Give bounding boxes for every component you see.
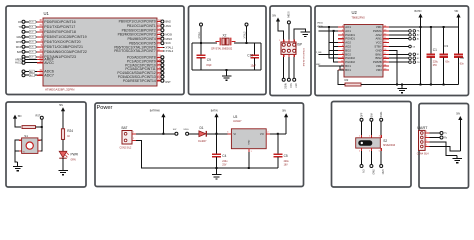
node GND terminal (S2 bottom) — [380, 148, 382, 151]
svg-text:GND: GND — [249, 139, 251, 144]
svg-text:VM1A: VM1A — [317, 21, 323, 24]
U2 pin row 5 — [338, 42, 344, 44]
svg-text:C2: C2 — [460, 56, 464, 60]
svg-text:MA2: MA2 — [17, 36, 23, 39]
ground (ISP top right) — [301, 32, 311, 36]
svg-text:4: 4 — [359, 151, 360, 153]
svg-text:25V: 25V — [433, 65, 438, 67]
svg-text:5: 5 — [369, 151, 370, 153]
ground (LED) — [62, 158, 64, 170]
wire SWG to D1 — [189, 133, 199, 135]
wire ground rail — [136, 140, 278, 168]
svg-text:220u: 220u — [284, 161, 290, 163]
svg-text:PC6/RESET/PCINT14: PC6/RESET/PCINT14 — [123, 79, 156, 83]
svg-text:PD1/TXD/PCINT17: PD1/TXD/PCINT17 — [44, 25, 75, 29]
connector ISP CON6 — [281, 42, 296, 54]
svg-text:1: 1 — [279, 40, 280, 42]
svg-text:VI: VI — [233, 132, 236, 136]
svg-text:RST: RST — [294, 83, 296, 88]
U2 pin row 7 — [338, 49, 344, 51]
ground (power) — [216, 168, 218, 174]
svg-text:5IN: 5IN — [272, 14, 276, 17]
svg-text:X2: X2 — [223, 33, 227, 37]
wire U2 left bus — [319, 27, 339, 31]
svg-text:CON4 SIL4: CON4 SIL4 — [417, 154, 429, 156]
svg-text:4: 4 — [426, 145, 427, 147]
node PA jumper — [389, 30, 409, 32]
ground (reset) — [17, 162, 19, 166]
node SCK terminal — [287, 78, 290, 81]
svg-text:BATIN: BATIN — [415, 10, 422, 13]
svg-text:25V: 25V — [222, 165, 227, 167]
U2 pin row 1 — [338, 26, 344, 28]
svg-text:BM2: BM2 — [166, 20, 172, 24]
connector CON4 SIL4 — [419, 130, 426, 150]
capacitor C9 — [200, 43, 202, 55]
svg-text:1: 1 — [359, 136, 360, 138]
U1 pin PD7 row — [22, 55, 25, 58]
svg-text:U1: U1 — [44, 11, 50, 16]
svg-text:PD6/AIN0/OC0A/PCINT22: PD6/AIN0/OC0A/PCINT22 — [44, 50, 87, 54]
svg-text:C10: C10 — [247, 53, 253, 57]
card U2 section frame — [315, 6, 469, 96]
svg-text:2: 2 — [426, 136, 427, 138]
svg-text:R24: R24 — [67, 129, 73, 133]
svg-text:ON: ON — [361, 169, 363, 173]
node STBY jumper — [389, 46, 409, 48]
U2 pin row 9 — [338, 57, 344, 59]
svg-text:1K: 1K — [67, 136, 70, 138]
wire UART 5V — [430, 135, 461, 151]
power flag 5IN (reset) — [13, 115, 17, 119]
ground U2 — [401, 85, 403, 89]
MCU U1 ATMEGA328P body — [43, 18, 157, 86]
U2 pin row 3 — [338, 34, 344, 36]
svg-text:GRN: GRN — [71, 160, 76, 162]
svg-text:PD4/T0/XCK/PCINT20: PD4/T0/XCK/PCINT20 — [44, 40, 80, 44]
wire S1 right leg — [41, 140, 42, 151]
svg-text:GND: GND — [381, 169, 383, 174]
U2 pin row 2 — [338, 30, 344, 32]
svg-text:CON2 SIL2: CON2 SIL2 — [120, 147, 132, 149]
svg-text:3: 3 — [379, 136, 380, 138]
svg-text:C1: C1 — [433, 48, 437, 52]
svg-text:SWG: SWG — [381, 112, 383, 118]
resistor R1 pull-up — [15, 119, 21, 127]
svg-text:CON6 DIL6 DLINE: CON6 DIL6 DLINE — [302, 48, 304, 67]
wire VM1 to BATIN/5IN rail — [389, 26, 459, 28]
wire GND drop — [389, 50, 397, 84]
wire ISP to ground — [294, 29, 305, 40]
node B2 jumper — [389, 57, 409, 59]
U1 pin ADC6 — [22, 70, 25, 73]
wire UART gnd — [430, 142, 458, 155]
card power section frame — [95, 103, 304, 187]
switch S2 — [356, 138, 381, 148]
svg-text:5IN: 5IN — [455, 10, 459, 13]
node SWD terminal (S2 bottom) — [370, 148, 372, 151]
card U1 section frame — [6, 6, 184, 95]
svg-text:XTAL2: XTAL2 — [243, 31, 246, 39]
svg-text:AM1: AM1 — [166, 24, 172, 28]
svg-text:ADC7: ADC7 — [44, 73, 54, 77]
wire D1 to U3 — [207, 133, 231, 135]
svg-text:6: 6 — [379, 151, 380, 153]
U2 pin row 4 — [338, 38, 344, 40]
svg-text:1: 1 — [251, 151, 252, 153]
svg-text:PD2/INT0/PCINT18: PD2/INT0/PCINT18 — [44, 30, 76, 34]
svg-text:5IN: 5IN — [59, 104, 63, 107]
wire oscillator loop — [192, 43, 261, 70]
node XTAL2 terminal — [245, 23, 248, 26]
svg-text:XTAL2: XTAL2 — [166, 49, 174, 53]
svg-text:CRYSTAL SMD5032: CRYSTAL SMD5032 — [211, 48, 233, 51]
motor driver U2 body — [344, 25, 383, 78]
svg-text:BATIN: BATIN — [211, 110, 218, 113]
svg-text:TB6612FNG: TB6612FNG — [352, 16, 366, 19]
svg-text:UART: UART — [417, 126, 428, 130]
svg-text:5IN: 5IN — [456, 113, 460, 116]
junction dots — [200, 42, 202, 44]
svg-text:D1: D1 — [200, 126, 204, 130]
svg-text:RX: RX — [18, 21, 22, 24]
card crystal section frame — [189, 6, 267, 95]
svg-text:SWD: SWD — [371, 169, 373, 175]
svg-text:PD5/T1/OC0B/PCINT21: PD5/T1/OC0B/PCINT21 — [44, 45, 83, 49]
U1 pin PD2 row — [22, 30, 25, 33]
svg-text:SCK: SCK — [289, 83, 291, 88]
svg-text:U3: U3 — [233, 115, 237, 119]
svg-text:BAT: BAT — [17, 51, 22, 54]
svg-text:C5: C5 — [284, 154, 288, 158]
resistor R24 — [62, 111, 64, 129]
capacitor C5 — [277, 134, 279, 154]
svg-text:DL4007: DL4007 — [198, 141, 207, 143]
svg-text:VM3: VM3 — [376, 68, 382, 72]
ground crystal — [226, 70, 228, 76]
svg-text:U2: U2 — [352, 10, 358, 15]
svg-text:3: 3 — [227, 131, 228, 133]
node ON terminal (S2 bottom) — [361, 148, 363, 151]
wire U3 GND drop — [248, 152, 250, 168]
svg-text:WCP: WCP — [16, 46, 22, 49]
svg-text:SCK: SCK — [166, 41, 172, 45]
U2 pin row 11 — [338, 65, 344, 67]
svg-text:ISP: ISP — [297, 43, 302, 47]
wire R24 to LED — [62, 139, 64, 151]
svg-text:PB7/TOSC2/XTAL2/PCINT7: PB7/TOSC2/XTAL2/PCINT7 — [114, 49, 156, 53]
node A1 jumper — [389, 38, 409, 40]
node RST terminal — [293, 78, 296, 81]
card S2 section frame — [332, 102, 412, 188]
svg-text:MOSI: MOSI — [289, 11, 291, 17]
svg-text:MISO: MISO — [284, 83, 286, 89]
wire BAT+ rail — [136, 133, 175, 135]
svg-text:PD0/RXD/PCINT16: PD0/RXD/PCINT16 — [44, 20, 75, 24]
svg-text:BAT: BAT — [122, 126, 128, 130]
svg-text:XTAL1: XTAL1 — [166, 45, 174, 49]
svg-text:220u: 220u — [433, 62, 439, 64]
svg-text:2: 2 — [369, 136, 370, 138]
svg-text:AVCC: AVCC — [15, 62, 22, 65]
svg-text:BATRAW: BATRAW — [150, 110, 161, 113]
wire MOSI drop — [288, 24, 290, 40]
node XTAL1 terminal — [200, 23, 203, 26]
wire S1 left leg — [15, 140, 19, 162]
wire 5IN to ISP pin1 — [278, 22, 284, 40]
wire XTAL1 drop — [200, 26, 202, 43]
svg-text:OFF: OFF — [361, 112, 363, 117]
svg-text:C4: C4 — [222, 154, 226, 158]
U2 pin row 8 — [338, 53, 344, 55]
capacitor C10 — [254, 43, 256, 55]
svg-text:ATMEGA328P_32PIN: ATMEGA328P_32PIN — [45, 87, 74, 91]
svg-text:XTAL1: XTAL1 — [198, 31, 201, 39]
svg-text:5IN: 5IN — [282, 110, 286, 113]
svg-text:SWG: SWG — [183, 129, 189, 131]
capacitor C1 — [430, 27, 432, 54]
U2 pin row 10 — [338, 61, 344, 63]
wire U2 bottom rail — [361, 84, 459, 86]
svg-text:C3: C3 — [444, 44, 448, 48]
svg-text:PWR: PWR — [71, 153, 79, 157]
node A2 jumper — [389, 34, 409, 36]
wires ISP bottom — [283, 57, 285, 78]
svg-text:R2: R2 — [345, 78, 349, 82]
svg-text:220u: 220u — [222, 161, 228, 163]
svg-text:Power: Power — [97, 105, 113, 111]
node PB jumper — [389, 61, 409, 63]
node TX terminal — [430, 132, 440, 134]
svg-text:RST: RST — [166, 80, 172, 84]
node B1 jumper — [389, 53, 409, 55]
wire VO rail — [270, 133, 286, 135]
ground (UART) — [456, 155, 458, 158]
card UART section frame — [419, 104, 469, 189]
svg-text:TX: TX — [18, 26, 21, 29]
U2 pin row 6 — [338, 46, 344, 48]
node MISO terminal — [282, 78, 285, 81]
svg-text:PD3/INT1/OC2B/PCINT19: PD3/INT1/OC2B/PCINT19 — [44, 35, 86, 39]
wire RST net — [41, 119, 43, 140]
svg-text:BO1: BO1 — [345, 68, 351, 72]
card reset/LED section frame — [6, 102, 86, 187]
capacitor C3 — [443, 27, 445, 54]
U1 pin ADC7 — [22, 74, 25, 77]
svg-text:AVCC: AVCC — [44, 61, 54, 65]
wire XTAL2 drop — [246, 26, 248, 43]
svg-text:1: 1 — [133, 132, 134, 134]
svg-text:3: 3 — [426, 140, 427, 142]
svg-text:C9: C9 — [207, 58, 211, 62]
svg-text:2: 2 — [267, 131, 268, 133]
svg-text:MSS22D16: MSS22D16 — [383, 145, 395, 147]
card ISP section frame — [270, 6, 311, 96]
svg-text:15pF: 15pF — [206, 64, 212, 67]
svg-text:MOSI: MOSI — [166, 33, 173, 37]
svg-text:15pF: 15pF — [251, 65, 257, 68]
svg-text:1: 1 — [426, 131, 427, 133]
capacitor C2 — [458, 27, 460, 54]
svg-text:MISO: MISO — [166, 37, 173, 41]
svg-text:WHP: WHP — [16, 41, 22, 44]
capacitor C4 — [216, 134, 218, 154]
svg-text:2: 2 — [133, 138, 134, 140]
svg-text:VO: VO — [260, 132, 264, 136]
LED PWR — [59, 151, 67, 157]
svg-text:LM1117: LM1117 — [233, 120, 242, 123]
U2 pin row 12 — [338, 69, 344, 71]
node RX terminal — [430, 137, 440, 139]
svg-text:S2: S2 — [383, 139, 387, 143]
svg-text:5IN: 5IN — [18, 115, 22, 118]
svg-text:16V: 16V — [284, 165, 289, 167]
